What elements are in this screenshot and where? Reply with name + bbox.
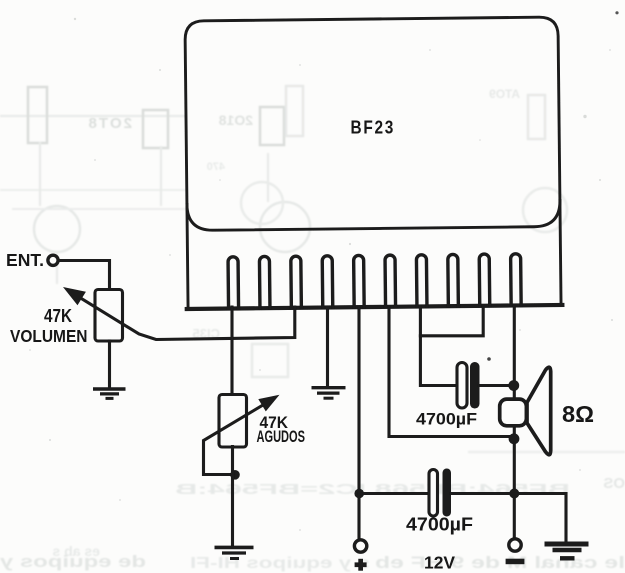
scan speck top right <box>615 11 618 14</box>
label + <box>355 559 367 571</box>
wire R2 bottom to ground <box>231 447 234 547</box>
pin 7 <box>416 255 427 307</box>
svg-text:470: 470 <box>207 161 225 173</box>
module U1 BF23 outline <box>185 17 561 309</box>
pin 6 <box>385 255 396 307</box>
svg-text:4700µF: 4700µF <box>416 410 477 429</box>
svg-text:8Ω: 8Ω <box>562 401 594 427</box>
svg-text:ENT.: ENT. <box>6 250 44 270</box>
junction node speaker bottom <box>509 433 520 444</box>
pin 10 <box>511 254 522 306</box>
junction node C2 left <box>354 489 364 499</box>
arrowhead R1 wiper <box>63 287 86 305</box>
svg-text:AGUDOS: AGUDOS <box>257 427 306 446</box>
ground GND4 (right) <box>545 544 589 558</box>
svg-text:12V: 12V <box>424 553 455 573</box>
ghost circle in module right <box>523 188 567 232</box>
pin 9 <box>479 254 490 306</box>
ghost scanline left 2 <box>0 189 186 191</box>
arrowhead R2 wiper <box>258 395 279 412</box>
svg-text:2OT8: 2OT8 <box>86 115 132 132</box>
scan speck near C1 <box>487 357 491 361</box>
wire pin 10 down to - terminal <box>513 307 516 539</box>
pin 1 <box>228 257 239 309</box>
svg-text:ATO9: ATO9 <box>489 87 520 101</box>
capacitor C2 plate right (filled) <box>443 469 452 517</box>
ghost box F below module <box>252 344 288 377</box>
module can bottom line <box>187 200 560 230</box>
ghost box in module D <box>286 86 303 136</box>
module bottom edge <box>187 305 563 309</box>
wire pin 7 to capacitor C1 <box>420 307 457 386</box>
ghost wires <box>39 142 41 206</box>
terminal + <box>354 540 366 552</box>
svg-text:BF23: BF23 <box>351 118 396 138</box>
pin 3 <box>291 256 302 308</box>
wire R1 bottom to ground <box>108 341 111 388</box>
svg-text:OS: OS <box>603 475 625 492</box>
potentiometer R1 47K VOLUMEN body <box>95 290 123 342</box>
potentiometer R2 47K AGUDOS body <box>219 395 247 448</box>
ghost resistor box C <box>260 107 284 145</box>
wire C2 to - node and ground <box>451 494 566 541</box>
ghost transistor circle 1 <box>34 206 80 252</box>
capacitor C2 4700uF wire left <box>359 492 429 495</box>
ground GND2 (agudos) <box>215 547 254 558</box>
ghost circle in module <box>241 182 283 224</box>
wire pin 6 to speaker bottom <box>389 307 511 437</box>
pin 4 <box>322 256 333 308</box>
svg-text:47K: 47K <box>44 305 73 326</box>
speaker LS1 horn <box>527 367 551 455</box>
ghost scanline left <box>0 115 186 117</box>
label - <box>506 559 525 565</box>
capacitor C1 plate right (filled) <box>470 362 480 409</box>
ground GND1 (volumen) <box>93 389 126 398</box>
pin 8 <box>448 254 459 306</box>
ghost transistor circle 2 <box>260 202 310 252</box>
junction node C2 right <box>509 489 519 499</box>
ghost scanline right <box>468 451 625 454</box>
svg-text:le canal M de 9 HF eb: le canal M de 9 HF eb <box>375 554 625 572</box>
ghost resistor box B <box>143 110 168 148</box>
ghost box in module E <box>528 95 545 139</box>
terminal ENT. <box>48 255 58 265</box>
capacitor C1 4700uF plate left <box>457 363 467 409</box>
junction node speaker top <box>508 380 519 391</box>
wire pin 1 to pot R2 <box>230 307 233 395</box>
terminal - <box>509 539 521 551</box>
wire pin 4 to ground <box>326 307 329 387</box>
speaker LS1 box <box>500 399 527 426</box>
ghost resistor box A <box>28 87 47 143</box>
svg-text:de equipos y: de equipos y <box>0 553 146 571</box>
pin 5 <box>354 255 365 307</box>
wire pin 5 to +12V terminal <box>357 307 360 539</box>
ground GND3 (module) <box>312 388 346 399</box>
capacitor C2 plate left <box>429 470 438 517</box>
svg-text:VOLUMEN: VOLUMEN <box>10 326 88 346</box>
wire ENT to pot R1 top <box>60 261 110 291</box>
wire wiper R2 <box>204 403 267 474</box>
wire pin 9 to pin 7 branch <box>420 307 483 336</box>
svg-text:4700µF: 4700µF <box>406 514 473 535</box>
wire wiper R1 to pin 3 <box>70 292 295 340</box>
wire C1 to speaker top node <box>480 384 511 387</box>
pin 2 <box>259 256 270 308</box>
svg-text:2O18: 2O18 <box>219 112 253 128</box>
junction node R2 wiper/bottom <box>230 470 240 480</box>
svg-text:s y equipos HI-FI: s y equipos HI-FI <box>190 555 370 572</box>
